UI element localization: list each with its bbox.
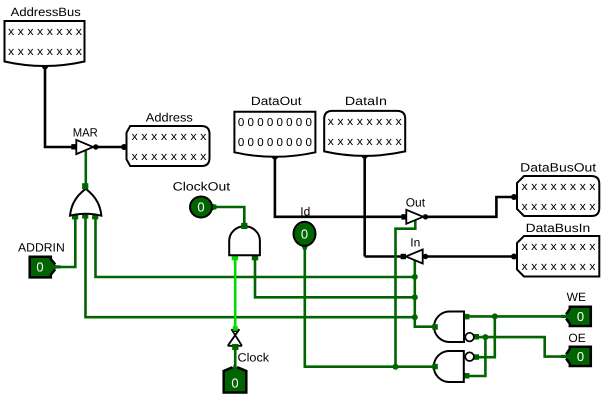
svg-text:x x x x x x x x: x x x x x x x x bbox=[132, 131, 207, 143]
svg-text:ClockOut: ClockOut bbox=[173, 180, 231, 194]
svg-text:OE: OE bbox=[568, 331, 585, 345]
svg-text:x x x x x x x x: x x x x x x x x bbox=[522, 181, 596, 193]
svg-text:Clock: Clock bbox=[238, 351, 271, 365]
svg-text:x x x x x x x x: x x x x x x x x bbox=[132, 151, 207, 163]
svg-text:0: 0 bbox=[301, 226, 308, 241]
svg-text:x x x x x x x x: x x x x x x x x bbox=[8, 46, 82, 58]
svg-text:In: In bbox=[410, 236, 420, 250]
svg-text:Id: Id bbox=[300, 205, 310, 219]
svg-text:0: 0 bbox=[577, 309, 584, 324]
svg-text:0 0 0 0 0 0 0 0: 0 0 0 0 0 0 0 0 bbox=[238, 117, 312, 129]
svg-text:0: 0 bbox=[36, 260, 43, 275]
svg-text:0: 0 bbox=[577, 349, 584, 364]
svg-text:x x x x x x x x: x x x x x x x x bbox=[522, 201, 596, 213]
svg-text:x x x x x x x x: x x x x x x x x bbox=[8, 26, 82, 38]
svg-text:Out: Out bbox=[406, 196, 426, 210]
svg-text:DataIn: DataIn bbox=[345, 94, 387, 108]
svg-text:0: 0 bbox=[197, 200, 204, 215]
svg-text:MAR: MAR bbox=[73, 126, 98, 140]
svg-text:DataOut: DataOut bbox=[251, 94, 302, 108]
svg-text:x x x x x x x x: x x x x x x x x bbox=[328, 116, 402, 128]
svg-text:0: 0 bbox=[231, 376, 238, 391]
svg-text:DataBusOut: DataBusOut bbox=[520, 160, 597, 174]
svg-text:0 0 0 0 0 0 0 0: 0 0 0 0 0 0 0 0 bbox=[238, 137, 312, 149]
svg-text:x x x x x x x x: x x x x x x x x bbox=[522, 261, 596, 273]
svg-text:ADDRIN: ADDRIN bbox=[18, 240, 65, 254]
svg-text:Address: Address bbox=[146, 110, 193, 124]
svg-text:DataBusIn: DataBusIn bbox=[526, 221, 591, 235]
svg-text:x x x x x x x x: x x x x x x x x bbox=[328, 136, 402, 148]
svg-text:AddressBus: AddressBus bbox=[11, 5, 81, 19]
svg-text:WE: WE bbox=[567, 290, 586, 304]
svg-text:x x x x x x x x: x x x x x x x x bbox=[522, 241, 596, 253]
